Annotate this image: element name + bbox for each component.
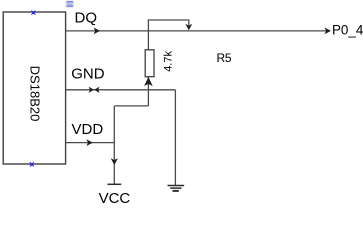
power bar VCC bbox=[108, 183, 122, 185]
arrow up into R5 bbox=[144, 77, 153, 86]
object anchor icon bbox=[66, 1, 74, 8]
wire VDD horizontal bbox=[66, 142, 115, 144]
wire R5 top bbox=[147, 31, 149, 50]
arrow on DQ wire bbox=[94, 28, 100, 35]
wire DQ horizontal bbox=[66, 30, 330, 32]
svg-text:GND: GND bbox=[71, 66, 105, 83]
svg-text:DQ: DQ bbox=[75, 9, 98, 26]
arrow down to VCC bbox=[111, 158, 118, 165]
svg-text:DS18B20: DS18B20 bbox=[27, 66, 42, 122]
anchor handle bottom bbox=[30, 162, 34, 166]
arrow to P0_4 bbox=[325, 28, 331, 35]
svg-text:P0_4: P0_4 bbox=[332, 23, 363, 38]
wire GND horizontal bbox=[66, 89, 176, 91]
svg-text:R5: R5 bbox=[217, 51, 232, 65]
svg-text:4.7k: 4.7k bbox=[163, 51, 175, 72]
node bridge wire DQ to R5 bbox=[148, 20, 188, 31]
svg-text:VDD: VDD bbox=[72, 121, 104, 138]
svg-text:VCC: VCC bbox=[99, 190, 131, 205]
wire step to VCC column bbox=[114, 105, 148, 107]
arrow down onto DQ wire bbox=[185, 24, 192, 30]
IC U1 DS18B20 body bbox=[3, 12, 65, 164]
wire VCC column bbox=[113, 106, 115, 184]
anchor handle top bbox=[31, 10, 35, 14]
wire GND vertical bbox=[174, 90, 176, 186]
ground symbol bbox=[168, 186, 185, 191]
wire R5 bottom bbox=[147, 77, 149, 106]
junction arrows on GND wire bbox=[89, 87, 94, 93]
resistor R5 body bbox=[145, 50, 154, 77]
arrow on VDD wire bbox=[86, 139, 92, 146]
